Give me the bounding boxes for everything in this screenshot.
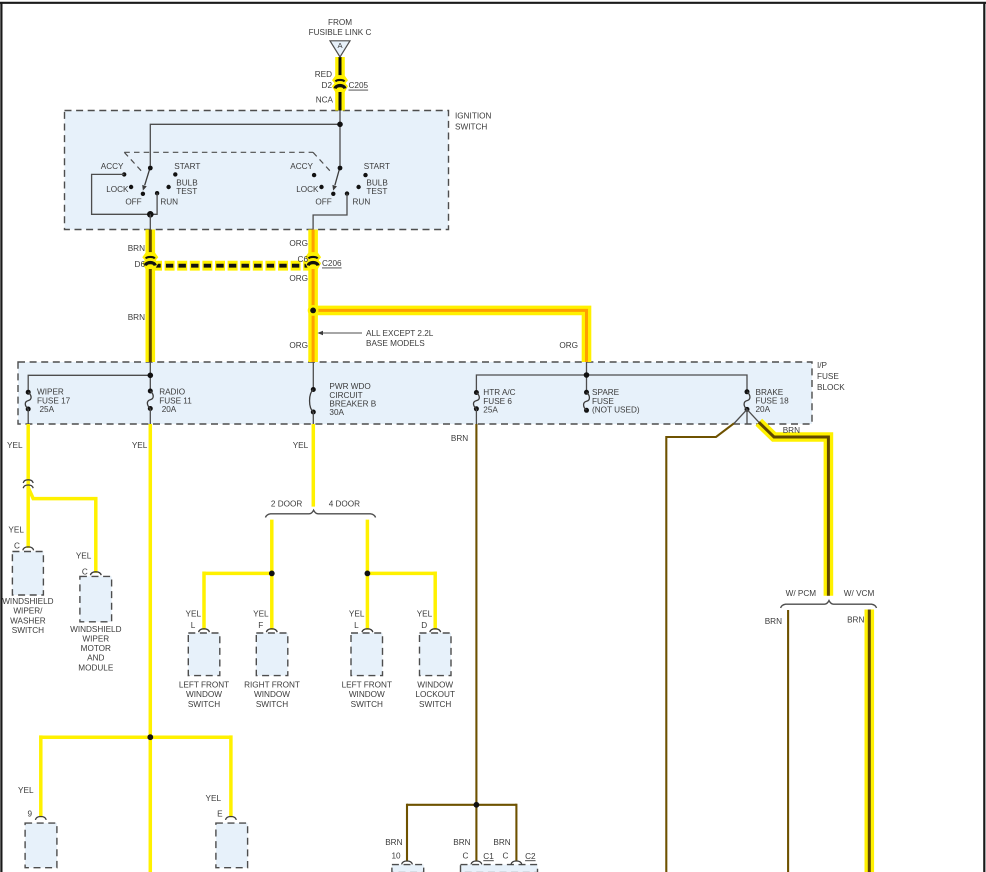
svg-text:WIPER: WIPER — [37, 388, 64, 397]
svg-text:ACCY: ACCY — [290, 162, 313, 171]
svg-text:C6: C6 — [298, 255, 309, 264]
svg-text:C: C — [82, 568, 88, 577]
svg-text:30A: 30A — [329, 408, 344, 417]
svg-text:ORG: ORG — [559, 341, 578, 350]
svg-text:BRN: BRN — [385, 838, 402, 847]
svg-text:YEL: YEL — [293, 441, 309, 450]
svg-text:RUN: RUN — [160, 198, 178, 207]
svg-text:BRN: BRN — [765, 617, 782, 626]
svg-text:LEFT FRONT: LEFT FRONT — [179, 680, 229, 689]
svg-text:C: C — [502, 852, 508, 861]
svg-text:NCA: NCA — [316, 95, 334, 104]
svg-text:LOCK: LOCK — [106, 185, 129, 194]
svg-text:W/ VCM: W/ VCM — [844, 589, 875, 598]
svg-text:BRN: BRN — [128, 313, 145, 322]
svg-text:SWITCH: SWITCH — [351, 700, 383, 709]
svg-text:IGNITION: IGNITION — [455, 111, 491, 120]
svg-text:C2: C2 — [525, 852, 536, 861]
svg-text:BRN: BRN — [128, 244, 145, 253]
svg-text:LOCKOUT: LOCKOUT — [415, 690, 455, 699]
svg-text:YEL: YEL — [253, 610, 269, 619]
svg-text:25A: 25A — [40, 405, 55, 414]
svg-text:ORG: ORG — [289, 239, 308, 248]
svg-text:ACCY: ACCY — [101, 162, 124, 171]
svg-text:YEL: YEL — [7, 441, 23, 450]
svg-text:WINDOW: WINDOW — [349, 690, 385, 699]
svg-text:SWITCH: SWITCH — [188, 700, 220, 709]
svg-text:SWITCH: SWITCH — [256, 700, 288, 709]
svg-text:WINDOW: WINDOW — [254, 690, 290, 699]
svg-text:F: F — [258, 621, 263, 630]
svg-text:BRN: BRN — [847, 616, 864, 625]
svg-text:E: E — [217, 810, 223, 819]
svg-text:ORG: ORG — [289, 341, 308, 350]
svg-text:25A: 25A — [483, 405, 498, 414]
svg-text:BRN: BRN — [493, 838, 510, 847]
svg-text:BLOCK: BLOCK — [817, 383, 845, 392]
svg-text:WINDSHIELD: WINDSHIELD — [70, 625, 121, 634]
svg-text:ORG: ORG — [289, 274, 308, 283]
svg-text:LOCK: LOCK — [296, 185, 319, 194]
svg-text:SWITCH: SWITCH — [12, 626, 44, 635]
svg-text:L: L — [354, 621, 359, 630]
svg-text:BASE MODELS: BASE MODELS — [366, 339, 425, 348]
svg-text:RADIO: RADIO — [159, 388, 185, 397]
svg-text:SWITCH: SWITCH — [419, 700, 451, 709]
svg-text:L: L — [191, 621, 196, 630]
svg-text:WIPER/: WIPER/ — [13, 607, 43, 616]
svg-text:MOTOR: MOTOR — [81, 644, 111, 653]
svg-text:W/ PCM: W/ PCM — [786, 589, 817, 598]
svg-text:WINDOW: WINDOW — [417, 680, 453, 689]
svg-text:WINDOW: WINDOW — [186, 690, 222, 699]
svg-text:YEL: YEL — [186, 610, 202, 619]
svg-text:BRN: BRN — [783, 426, 800, 435]
svg-text:LEFT FRONT: LEFT FRONT — [342, 680, 392, 689]
svg-text:9: 9 — [28, 810, 33, 819]
svg-text:D2: D2 — [322, 81, 333, 90]
svg-text:START: START — [174, 162, 200, 171]
svg-text:YEL: YEL — [206, 794, 222, 803]
svg-text:FROM: FROM — [328, 18, 352, 27]
svg-text:C1: C1 — [483, 852, 494, 861]
svg-text:C205: C205 — [349, 81, 369, 90]
svg-text:MODULE: MODULE — [78, 663, 114, 672]
svg-text:10: 10 — [391, 852, 401, 861]
svg-text:WIPER: WIPER — [82, 635, 109, 644]
svg-text:TEST: TEST — [366, 187, 387, 196]
svg-text:YEL: YEL — [349, 610, 365, 619]
svg-text:C: C — [14, 542, 20, 551]
svg-text:RIGHT FRONT: RIGHT FRONT — [244, 680, 300, 689]
svg-text:AND: AND — [87, 654, 104, 663]
svg-text:WINDSHIELD: WINDSHIELD — [2, 597, 53, 606]
svg-text:YEL: YEL — [18, 786, 34, 795]
svg-text:20A: 20A — [756, 405, 771, 414]
svg-text:(NOT USED): (NOT USED) — [592, 405, 640, 414]
svg-text:2 DOOR: 2 DOOR — [271, 499, 302, 508]
svg-text:20A: 20A — [162, 405, 177, 414]
svg-text:BRN: BRN — [453, 838, 470, 847]
svg-text:4 DOOR: 4 DOOR — [329, 499, 360, 508]
svg-text:RUN: RUN — [353, 198, 371, 207]
svg-text:FUSE 11: FUSE 11 — [159, 396, 192, 405]
svg-text:D: D — [421, 621, 427, 630]
svg-text:YEL: YEL — [8, 525, 24, 534]
svg-text:YEL: YEL — [417, 610, 433, 619]
svg-text:FUSIBLE LINK C: FUSIBLE LINK C — [309, 28, 372, 37]
svg-text:FUSE 17: FUSE 17 — [37, 396, 71, 405]
svg-text:START: START — [364, 162, 390, 171]
svg-text:D6: D6 — [135, 260, 146, 269]
svg-text:FUSE: FUSE — [817, 372, 839, 381]
svg-text:SWITCH: SWITCH — [455, 122, 487, 131]
svg-text:C206: C206 — [322, 259, 342, 268]
svg-text:I/P: I/P — [817, 361, 828, 370]
svg-text:YEL: YEL — [132, 441, 148, 450]
svg-text:WASHER: WASHER — [10, 616, 46, 625]
svg-text:TEST: TEST — [176, 187, 197, 196]
svg-text:YEL: YEL — [76, 552, 92, 561]
svg-text:OFF: OFF — [125, 198, 141, 207]
svg-text:BRN: BRN — [451, 434, 468, 443]
svg-text:RED: RED — [315, 70, 332, 79]
svg-text:C: C — [462, 852, 468, 861]
svg-text:OFF: OFF — [315, 198, 331, 207]
svg-text:ALL EXCEPT 2.2L: ALL EXCEPT 2.2L — [366, 329, 434, 338]
